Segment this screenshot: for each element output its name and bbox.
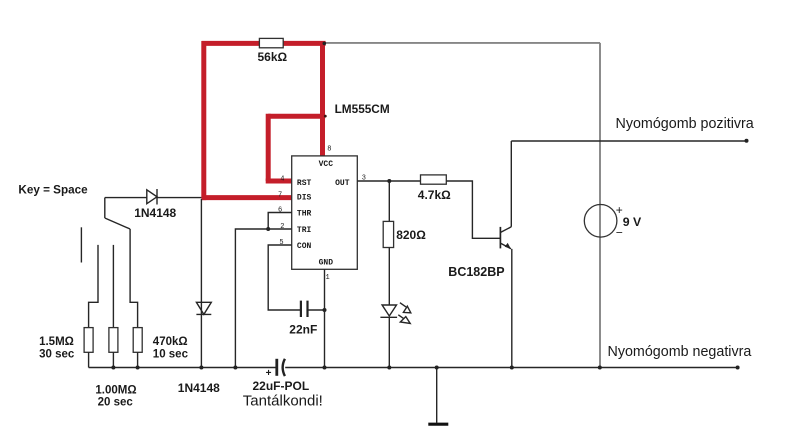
wire: GND pin 1 to ground rail: [324, 269, 326, 367]
node: THR-TRI junction: [266, 227, 270, 231]
label 820Ohm: [396, 228, 426, 242]
switch S1 lever: [105, 218, 130, 229]
svg-text:1N4148: 1N4148: [134, 206, 176, 220]
wire: collector up to pushbutton positive line: [510, 141, 512, 227]
svg-text:1.00MΩ: 1.00MΩ: [95, 384, 136, 396]
wire: contact to resistor 1.00M: [112, 245, 114, 328]
svg-text:820Ω: 820Ω: [396, 228, 426, 242]
node: rail junction emitter: [510, 366, 514, 370]
wire: THR pin 6 to TRI node: [268, 213, 292, 230]
label battery plus: [616, 203, 623, 217]
svg-text:CON: CON: [297, 242, 312, 251]
label 470kOhm 10 sec: [153, 336, 189, 360]
resistor R5 4.7kOhm: [421, 175, 447, 184]
wire: emitter down to ground rail: [511, 249, 513, 368]
wire: 4.7k to transistor base: [446, 181, 500, 238]
label 56kOhm: [258, 50, 288, 64]
svg-text:4.7kΩ: 4.7kΩ: [418, 188, 451, 202]
LED light arrow 2: [398, 315, 410, 324]
node: rail junction ground symbol: [435, 366, 439, 370]
svg-text:Key = Space: Key = Space: [18, 183, 88, 196]
svg-text:BC182BP: BC182BP: [448, 265, 504, 279]
capacitor C1 22nF: [301, 301, 308, 317]
battery V1 9V circle: [584, 205, 617, 238]
svg-text:9 V: 9 V: [623, 215, 642, 229]
pin number 7: [278, 192, 282, 200]
label CON pin: [297, 242, 312, 251]
resistor R4 470kOhm: [133, 328, 142, 353]
wire: red highlight left vertical: [201, 41, 206, 200]
svg-text:Nyomógomb negativra: Nyomógomb negativra: [608, 344, 752, 360]
wire: ground rail left timing segment: [89, 367, 277, 369]
wire: resistor bottoms to rail: [89, 352, 138, 367]
svg-text:30 sec: 30 sec: [39, 348, 75, 360]
wire: red highlight right vertical to VCC pin 8: [320, 41, 325, 156]
svg-text:+: +: [616, 203, 623, 217]
svg-text:RST: RST: [297, 179, 312, 188]
wire: red highlight RST pin 4 horizontal: [266, 179, 292, 184]
wire: diode D2 branch vertical: [200, 199, 202, 368]
svg-text:22nF: 22nF: [289, 323, 317, 337]
svg-text:THR: THR: [297, 209, 312, 218]
label BC182BP: [448, 265, 504, 279]
wire: right vertical battery branch: [599, 43, 601, 368]
svg-text:VCC: VCC: [319, 160, 334, 169]
ground symbol: [428, 368, 448, 425]
svg-text:GND: GND: [319, 259, 334, 268]
node: negative rail endpoint: [736, 366, 740, 370]
label 1.5MOhm 30 sec: [39, 336, 75, 360]
wire: OUT node down to 820: [388, 181, 390, 221]
pin number 2: [280, 223, 284, 231]
node: positive line endpoint: [745, 139, 749, 143]
transistor Q1 emitter stroke with arrow: [501, 243, 511, 249]
label OUT pin: [335, 179, 350, 188]
label Tantalkondi: [243, 392, 323, 409]
svg-text:470kΩ: 470kΩ: [153, 336, 188, 348]
node: rail junction LED: [387, 366, 391, 370]
svg-text:7: 7: [278, 192, 282, 200]
svg-text:DIS: DIS: [297, 193, 312, 202]
svg-text:10 sec: 10 sec: [153, 348, 189, 360]
node: rail junction D2: [199, 366, 203, 370]
pin number 8: [327, 145, 331, 153]
label battery minus: [616, 226, 623, 240]
wire: red highlight inner horizontal branch: [268, 114, 325, 119]
label 22nF: [289, 323, 317, 337]
wire: lever contact to resistor 470k: [130, 229, 138, 328]
node: rail junction battery: [598, 366, 602, 370]
label TRI pin: [297, 226, 312, 235]
node: rail junction R4: [136, 366, 140, 370]
label RST pin: [297, 179, 312, 188]
pin number 3: [362, 174, 366, 182]
resistor R1 56kOhm: [259, 38, 283, 47]
node: rail junction GND pin: [323, 366, 327, 370]
resistor R6 820Ohm: [383, 221, 393, 247]
pin number 4: [280, 175, 284, 183]
resistor R2 1.5MOhm: [84, 328, 93, 353]
svg-text:4: 4: [280, 175, 284, 183]
label 4.7kOhm: [418, 188, 451, 202]
pin number 5: [279, 239, 283, 247]
node: C1-GND junction: [323, 308, 327, 312]
label THR pin: [297, 209, 312, 218]
svg-text:1.5MΩ: 1.5MΩ: [39, 336, 74, 348]
wire: OUT pin 3 to 4.7k: [357, 180, 420, 182]
label 1N4148: [134, 206, 176, 220]
svg-text:56kΩ: 56kΩ: [258, 50, 288, 64]
node: OUT junction: [387, 179, 391, 183]
svg-text:1: 1: [326, 274, 330, 282]
label 9 V: [623, 215, 642, 229]
label 1.00MOhm 20 sec: [95, 384, 136, 408]
label GND pin: [319, 259, 334, 268]
resistor R3 1.00MOhm: [109, 328, 118, 353]
transistor Q1 BC182BP base bar: [499, 227, 501, 249]
label LM555CM: [335, 102, 390, 116]
wire: LED cathode to ground rail: [388, 317, 390, 367]
svg-text:+: +: [266, 368, 272, 379]
label Key = Space: [18, 183, 88, 196]
svg-text:5: 5: [279, 239, 283, 247]
switch S1 spare contact: [80, 227, 82, 262]
wire: red highlight DIS pin 7 horizontal: [202, 195, 292, 200]
wire: top power rail from 56k node to battery: [322, 42, 600, 44]
svg-text:2: 2: [280, 223, 284, 231]
capacitor C2 22uF-POL: [277, 359, 285, 376]
IC U1 LM555 body: [292, 156, 358, 269]
svg-text:LM555CM: LM555CM: [335, 102, 390, 116]
wire: capacitor C1 to GND wire: [308, 309, 324, 311]
wire: switch common horizontal to diode D1: [105, 197, 202, 199]
svg-text:Tantálkondi!: Tantálkondi!: [243, 392, 323, 409]
svg-text:−: −: [616, 226, 623, 240]
wire: 820 to LED: [388, 248, 390, 306]
node: junction top rail with red wire: [323, 42, 327, 46]
svg-text:20 sec: 20 sec: [98, 397, 134, 409]
label 22uF-POL: [253, 379, 310, 393]
LED light arrow 1: [400, 303, 411, 313]
node: rail junction TRI: [233, 366, 237, 370]
label VCC pin: [319, 160, 334, 169]
svg-text:8: 8: [327, 145, 331, 153]
pin number 1: [326, 274, 330, 282]
wire: contact to resistor 1.5M: [89, 245, 98, 328]
wire: red highlight inner vertical: [266, 114, 271, 181]
label DIS pin: [297, 193, 312, 202]
diode D2 1N4148 vertical: [196, 302, 211, 314]
wire: CON pin 5 to capacitor C1: [268, 245, 300, 310]
label Nyomogomb pozitivra: [616, 116, 754, 132]
pin number 6: [278, 206, 282, 214]
diode D1 1N4148 horizontal: [147, 189, 157, 205]
wire: pushbutton positive horizontal: [511, 140, 746, 142]
label Nyomogomb negativra: [608, 344, 752, 360]
node: junction VCC red wire with inner branch: [324, 115, 327, 118]
transistor Q1 collector stroke: [501, 227, 512, 233]
wire: TRI pin 2 to timing node: [235, 229, 291, 368]
switch S1 common vertical: [104, 198, 106, 218]
LED D3: [380, 305, 397, 317]
svg-text:Nyomógomb pozitivra: Nyomógomb pozitivra: [616, 116, 754, 132]
node: rail junction R3: [111, 366, 115, 370]
svg-text:OUT: OUT: [335, 179, 350, 188]
svg-text:1N4148: 1N4148: [178, 381, 220, 395]
label 1N4148 vertical diode: [178, 381, 220, 395]
wire: red highlight top horizontal through 56k: [202, 41, 326, 46]
svg-text:22uF-POL: 22uF-POL: [253, 379, 310, 393]
label plus sign of C2: [266, 368, 272, 379]
wire: ground rail right segment: [285, 367, 737, 369]
svg-text:TRI: TRI: [297, 226, 312, 235]
